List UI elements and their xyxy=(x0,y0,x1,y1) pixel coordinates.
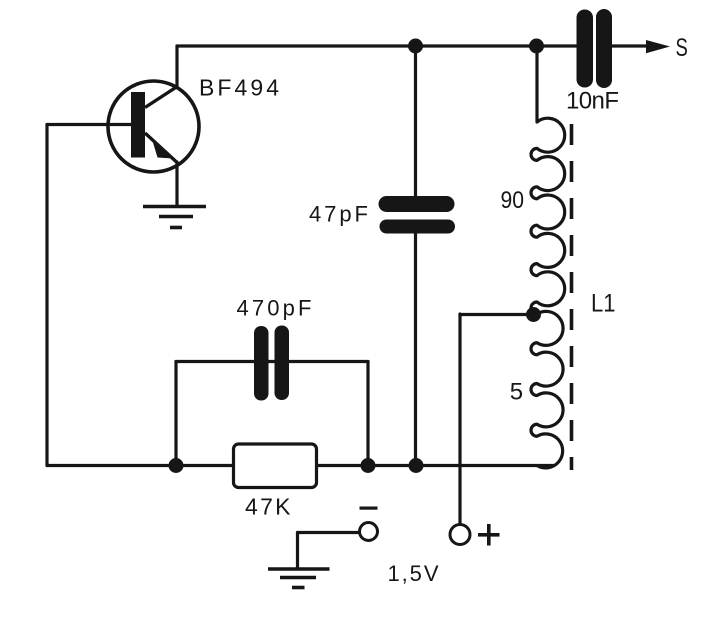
wire 10nF output to arrow xyxy=(612,44,648,47)
wire 470pF horizontal xyxy=(176,360,368,363)
junction node bottom left xyxy=(169,458,184,473)
junction node bottom 47pF xyxy=(409,458,424,473)
output arrow S xyxy=(646,40,670,53)
battery terminal plus xyxy=(450,525,470,545)
wire emitter vertical xyxy=(175,162,178,206)
svg-text:1,5V: 1,5V xyxy=(388,561,439,586)
wire collector vertical xyxy=(175,46,178,86)
svg-text:10nF: 10nF xyxy=(566,88,619,115)
inductor L1 coil xyxy=(531,118,565,468)
battery terminal minus xyxy=(360,523,378,541)
wire 47pF top branch xyxy=(414,46,417,197)
resistor R1 47K xyxy=(234,444,317,488)
svg-text:47K: 47K xyxy=(245,494,291,520)
wire coil tap horizontal xyxy=(460,313,534,316)
capacitor C3 470pF xyxy=(254,326,289,401)
junction node bottom 470pF right xyxy=(361,458,376,473)
wire 470pF right vertical xyxy=(366,362,369,466)
junction node top C1 xyxy=(408,39,423,54)
svg-text:BF494: BF494 xyxy=(199,75,279,101)
wire base lead xyxy=(47,123,132,126)
ground (emitter) xyxy=(143,207,206,228)
label minus xyxy=(360,507,378,510)
capacitor C2 10nF xyxy=(577,9,613,88)
svg-text:S: S xyxy=(676,34,688,62)
svg-text:90: 90 xyxy=(501,187,525,214)
wire battery minus ground vertical xyxy=(296,533,299,569)
wire battery plus vertical xyxy=(458,314,461,523)
wire 470pF left vertical xyxy=(174,362,177,466)
capacitor C1 47pF xyxy=(379,196,456,234)
junction node coil tap xyxy=(526,307,541,322)
svg-text:470pF: 470pF xyxy=(237,296,312,321)
wire 47pF bottom branch xyxy=(414,232,417,466)
wire coil top lead xyxy=(535,46,538,122)
svg-text:5: 5 xyxy=(510,379,523,406)
wire battery minus horizontal xyxy=(298,531,359,534)
transistor Q1 BF494 xyxy=(108,81,199,172)
svg-text:47pF: 47pF xyxy=(309,202,368,227)
wire top rail collector to output xyxy=(177,44,577,47)
dashed core line of L1 xyxy=(570,124,574,470)
svg-text:L1: L1 xyxy=(591,290,616,318)
wire left vertical feedback xyxy=(45,125,48,466)
ground (battery) xyxy=(268,569,330,588)
wire bottom rail xyxy=(47,464,554,467)
label + xyxy=(478,524,500,546)
junction node top coil xyxy=(529,39,544,54)
